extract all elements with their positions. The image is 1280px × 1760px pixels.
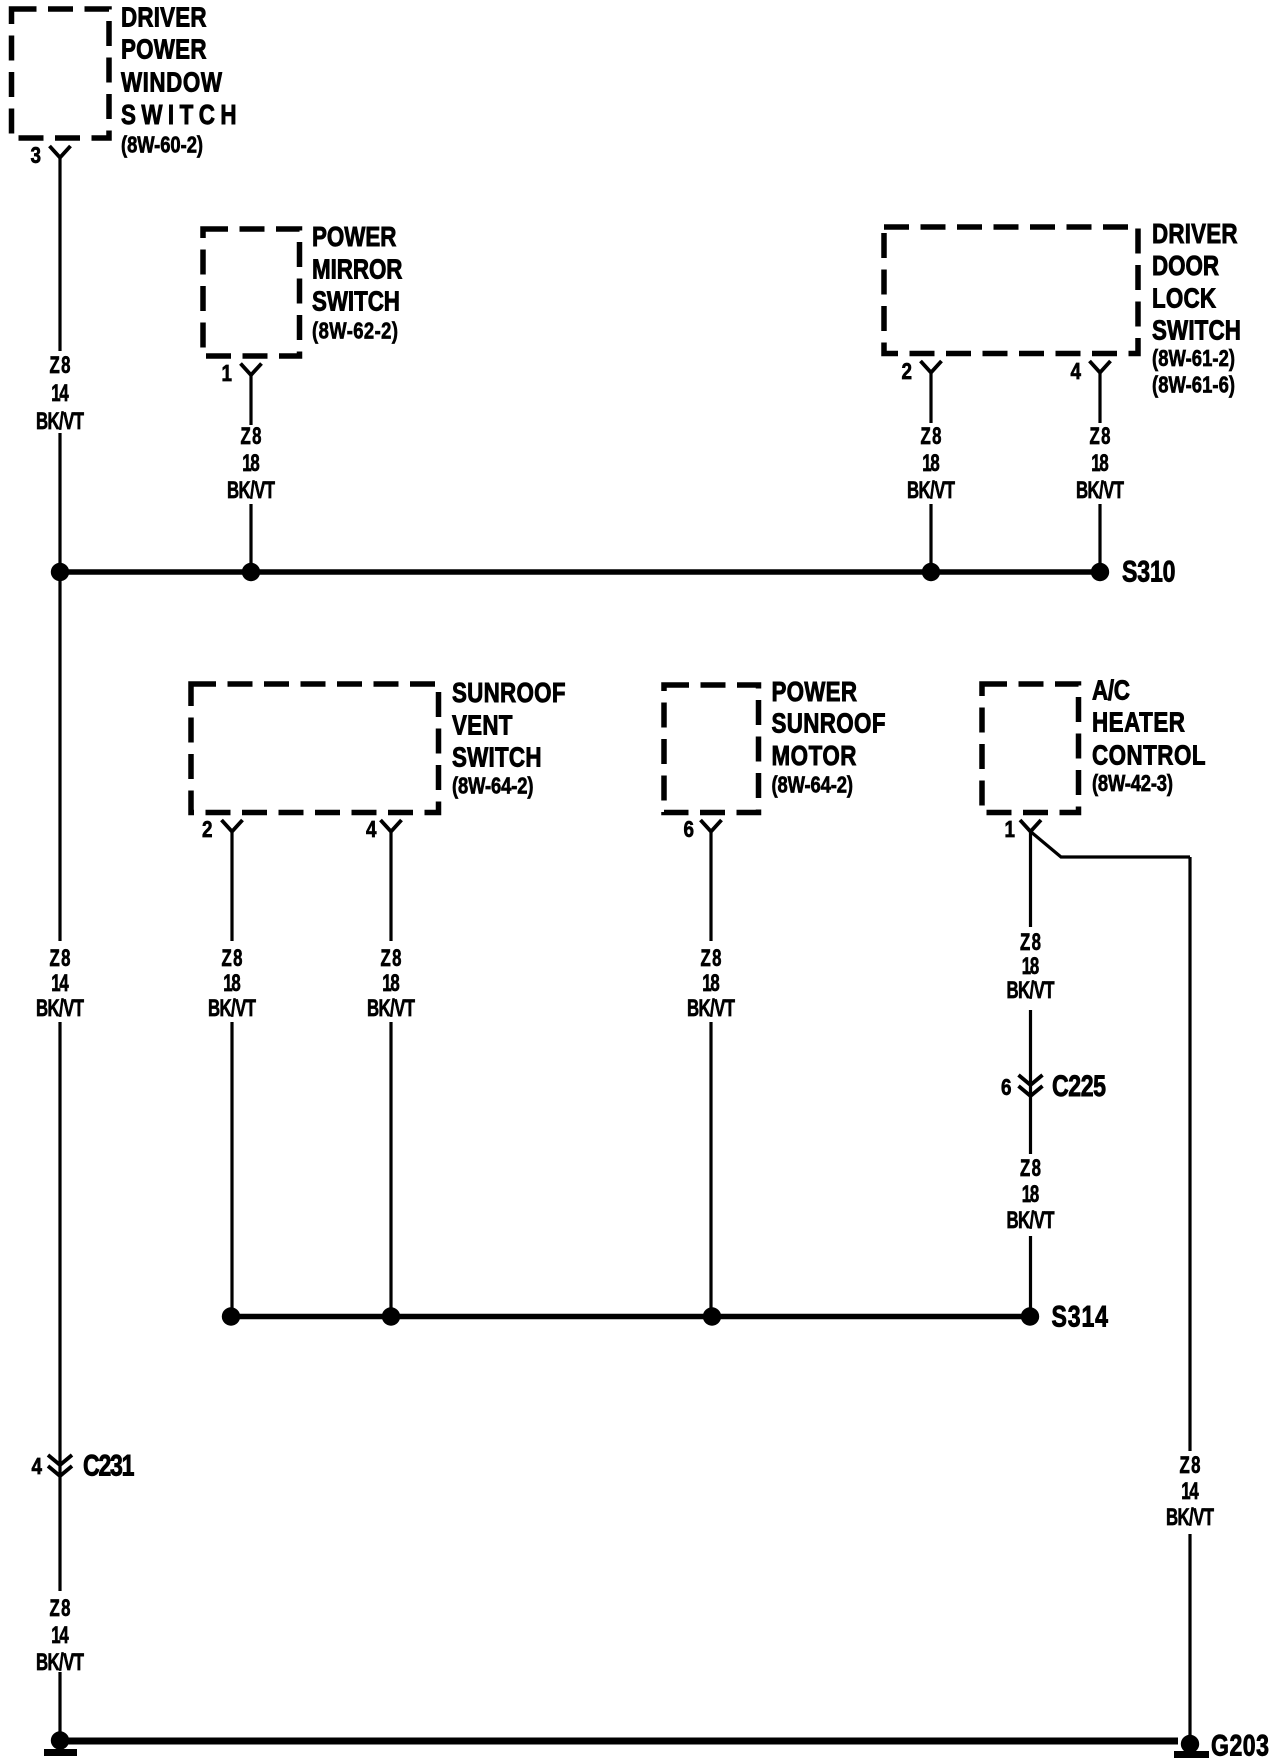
ground terminal left (dot and bar) <box>44 1731 77 1752</box>
svg-text:BK/VT: BK/VT <box>36 408 84 435</box>
wire label Z8 18 BK/VT (vent switch pin 4 wire) <box>367 945 415 1022</box>
net name G203 <box>1211 1729 1269 1760</box>
svg-text:BK/VT: BK/VT <box>907 477 955 504</box>
svg-text:14: 14 <box>1181 1478 1199 1505</box>
splice dot vent switch pin 2 wire junction at S314 <box>222 1307 240 1325</box>
svg-text:4: 4 <box>32 1454 43 1479</box>
wire from a/c heater control pin 1 through C225 to splice S314 <box>1029 832 1032 1317</box>
svg-text:SWITCH: SWITCH <box>312 286 400 317</box>
svg-text:14: 14 <box>51 970 69 997</box>
wire label Z8 14 BK/VT (right trunk wire) <box>1166 1452 1214 1531</box>
component box: driver door lock switch <box>884 227 1138 354</box>
connector Y symbol pin 4 of driver door lock switch <box>1090 361 1111 373</box>
pin 2 label (sunroof vent switch pin 2) <box>202 817 212 842</box>
wire label Z8 14 BK/VT (left trunk wire middle) <box>36 945 84 1022</box>
svg-text:18: 18 <box>223 970 241 997</box>
wire from power sunroof motor pin 6 to splice S314 <box>709 832 712 1317</box>
wire label Z8 18 BK/VT (door lock pin 4 wire) <box>1076 423 1124 504</box>
svg-text:MOTOR: MOTOR <box>772 741 857 772</box>
svg-text:2: 2 <box>902 359 912 384</box>
component box: power mirror switch <box>203 229 300 356</box>
wire from driver door lock switch pin 4 to splice S310 <box>1098 373 1101 573</box>
svg-text:18: 18 <box>242 450 260 477</box>
splice dot splice S310 <box>1091 563 1109 581</box>
wire label Z8 18 BK/VT (sunroof motor wire) <box>687 945 735 1022</box>
splice dot on left trunk wire at S310 bus <box>51 563 69 581</box>
svg-text:WINDOW: WINDOW <box>121 67 222 98</box>
ground G203 terminal (dot and bar) <box>1174 1735 1209 1755</box>
svg-text:6: 6 <box>684 817 694 842</box>
svg-text:3: 3 <box>31 143 41 168</box>
net name S310 <box>1122 555 1176 589</box>
connector Y symbol pin 3 of driver power window switch <box>50 146 71 158</box>
svg-text:(8W-60-2): (8W-60-2) <box>121 133 203 158</box>
wire label Z8 14 BK/VT (window switch wire upper) <box>36 352 84 435</box>
svg-text:MIRROR: MIRROR <box>312 254 402 285</box>
in-line connector symbol C231 <box>48 1455 72 1476</box>
svg-text:S310: S310 <box>1122 555 1176 589</box>
connector Y symbol pin 1 of a/c heater control <box>1020 820 1041 832</box>
splice dot vent switch pin 4 wire junction at S314 <box>382 1307 400 1325</box>
svg-text:14: 14 <box>51 1622 69 1649</box>
net name C231 <box>83 1449 135 1483</box>
pin 6 label (connector C225) <box>1001 1075 1011 1100</box>
svg-text:SUNROOF: SUNROOF <box>772 708 886 739</box>
svg-text:6: 6 <box>1001 1075 1011 1100</box>
svg-text:BK/VT: BK/VT <box>227 477 275 504</box>
svg-text:POWER: POWER <box>772 677 858 708</box>
svg-text:S314: S314 <box>1052 1300 1109 1334</box>
bus wire splice S310 horizontal run <box>60 569 1100 574</box>
connector Y symbol pin 2 of driver door lock switch <box>921 361 942 373</box>
svg-text:BK/VT: BK/VT <box>1076 477 1124 504</box>
component box: driver power window switch <box>12 9 110 138</box>
svg-text:18: 18 <box>382 970 400 997</box>
net name C225 <box>1052 1069 1106 1103</box>
wire label Z8 18 BK/VT (door lock pin 2 wire) <box>907 423 955 504</box>
connector Y symbol pin 6 of power sunroof motor <box>701 820 722 832</box>
wire from power mirror switch pin 1 to splice S310 <box>249 375 252 572</box>
svg-text:CONTROL: CONTROL <box>1092 740 1206 771</box>
label: driver power window switch <box>121 2 237 158</box>
pin 3 label (driver power window switch) <box>31 143 41 168</box>
pin 1 label (a/c heater control pin 1) <box>1005 817 1016 842</box>
wire from driver power window switch pin 3 to ground G203 (left trunk) <box>58 158 61 1742</box>
svg-text:2: 2 <box>202 817 212 842</box>
component box: sunroof vent switch <box>191 684 439 813</box>
svg-text:LOCK: LOCK <box>1152 283 1217 314</box>
ground bus wire along bottom <box>60 1738 1178 1745</box>
svg-text:4: 4 <box>1071 359 1082 384</box>
svg-text:VENT: VENT <box>452 710 513 741</box>
pin 4 label (connector C231) <box>32 1454 43 1479</box>
wire label Z8 18 BK/VT (a/c heater control wire above C225) <box>1006 929 1054 1004</box>
label: driver door lock switch <box>1152 219 1241 398</box>
svg-text:(8W-64-2): (8W-64-2) <box>772 773 854 798</box>
label: power mirror switch <box>312 222 402 344</box>
wire label Z8 18 BK/VT (vent switch pin 2 wire) <box>208 945 256 1022</box>
label: power sunroof motor <box>772 677 886 798</box>
wire label Z8 14 BK/VT (left trunk wire lower) <box>36 1595 84 1676</box>
svg-text:HEATER: HEATER <box>1092 707 1185 738</box>
svg-text:1: 1 <box>1005 817 1016 842</box>
svg-text:SWITCH: SWITCH <box>1152 315 1241 346</box>
svg-text:(8W-61-6): (8W-61-6) <box>1152 373 1235 398</box>
component box: power sunroof motor <box>664 685 759 813</box>
wire label Z8 18 BK/VT (a/c heater control wire below C225) <box>1006 1155 1054 1234</box>
svg-text:DOOR: DOOR <box>1152 251 1219 282</box>
svg-text:DRIVER: DRIVER <box>1152 219 1238 250</box>
pin 6 label (power sunroof motor pin 6) <box>684 817 694 842</box>
wire label Z8 18 BK/VT (mirror switch wire) <box>227 423 275 504</box>
label: sunroof vent switch <box>452 678 566 799</box>
pin 1 label (power mirror switch) <box>222 361 233 386</box>
connector Y symbol pin 2 of sunroof vent switch <box>222 820 243 832</box>
svg-text:POWER: POWER <box>312 222 396 253</box>
svg-text:(8W-42-3): (8W-42-3) <box>1092 771 1173 796</box>
svg-text:18: 18 <box>1091 450 1109 477</box>
svg-text:BK/VT: BK/VT <box>1006 1207 1054 1234</box>
wire from a/c heater control pin 1 to right trunk (diagonal and horizontal jog) <box>1031 832 1191 858</box>
svg-text:18: 18 <box>702 970 720 997</box>
bus wire splice S314 horizontal run <box>231 1314 1030 1319</box>
connector Y symbol pin 1 of power mirror switch <box>241 364 262 376</box>
svg-text:(8W-62-2): (8W-62-2) <box>312 319 398 344</box>
wire from sunroof vent switch pin 2 to splice S314 <box>230 832 233 1317</box>
svg-text:BK/VT: BK/VT <box>36 1649 84 1676</box>
svg-text:1: 1 <box>222 361 233 386</box>
svg-text:POWER: POWER <box>121 34 207 65</box>
svg-text:A/C: A/C <box>1092 675 1130 706</box>
svg-text:14: 14 <box>51 380 69 407</box>
net name S314 <box>1052 1300 1109 1334</box>
svg-text:C225: C225 <box>1052 1069 1106 1103</box>
svg-text:BK/VT: BK/VT <box>687 995 735 1022</box>
splice dot door lock pin 2 wire junction <box>922 563 940 581</box>
svg-text:BK/VT: BK/VT <box>36 995 84 1022</box>
svg-text:C231: C231 <box>83 1449 135 1483</box>
wire from sunroof vent switch pin 4 to splice S314 <box>389 832 392 1317</box>
svg-text:BK/VT: BK/VT <box>208 995 256 1022</box>
svg-text:(8W-64-2): (8W-64-2) <box>452 774 534 799</box>
wire right trunk from a/c heater control to ground G203 <box>1188 857 1191 1741</box>
svg-text:18: 18 <box>922 450 940 477</box>
svg-text:DRIVER: DRIVER <box>121 2 207 33</box>
svg-text:18: 18 <box>1022 953 1040 980</box>
svg-text:BK/VT: BK/VT <box>1166 1504 1214 1531</box>
svg-text:BK/VT: BK/VT <box>367 995 415 1022</box>
in-line connector symbol C225 <box>1019 1075 1043 1096</box>
splice dot splice S314 <box>1021 1307 1039 1325</box>
component box: a/c heater control <box>982 684 1079 813</box>
svg-text:SWITCH: SWITCH <box>452 742 542 773</box>
svg-text:SUNROOF: SUNROOF <box>452 678 566 709</box>
svg-text:G203: G203 <box>1211 1729 1269 1760</box>
svg-text:4: 4 <box>366 817 377 842</box>
splice dot power mirror switch wire junction <box>242 563 260 581</box>
wire from driver door lock switch pin 2 to splice S310 <box>929 373 932 573</box>
svg-text:BK/VT: BK/VT <box>1006 977 1054 1004</box>
label: a/c heater control <box>1092 675 1206 796</box>
splice dot sunroof motor wire junction at S314 <box>703 1307 721 1325</box>
pin 2 label (driver door lock switch pin 2) <box>902 359 912 384</box>
pin 4 label (sunroof vent switch pin 4) <box>366 817 377 842</box>
connector Y symbol pin 4 of sunroof vent switch <box>381 820 402 832</box>
svg-text:(8W-61-2): (8W-61-2) <box>1152 346 1235 371</box>
pin 4 label (driver door lock switch pin 4) <box>1071 359 1082 384</box>
svg-text:18: 18 <box>1022 1181 1040 1208</box>
